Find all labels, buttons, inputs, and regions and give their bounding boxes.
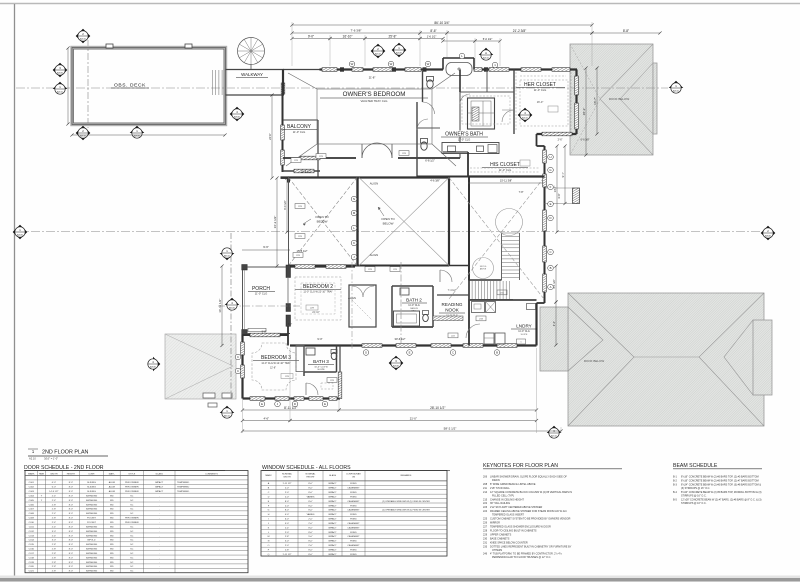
- section marker 4/A3.00 right of deck: [230, 107, 245, 122]
- svg-text:B-1: B-1: [673, 476, 677, 479]
- svg-text:8'-0": 8'-0": [308, 510, 313, 512]
- section marker 1/A4.10 right roof: [669, 81, 684, 94]
- svg-text:G: G: [268, 510, 270, 512]
- svg-text:BATH 2: BATH 2: [406, 298, 422, 303]
- svg-text:2'-4": 2'-4": [285, 527, 290, 529]
- svg-text:STIRRUPS @ 16" O.C.: STIRRUPS @ 16" O.C.: [681, 502, 707, 505]
- svg-text:4'-1 1/2": 4'-1 1/2": [552, 279, 556, 289]
- corridor walls mid: [460, 91, 514, 93]
- tray ceiling: [317, 89, 432, 144]
- void west wall: [288, 178, 290, 267]
- her closet walls: [513, 70, 515, 135]
- svg-text:5'-0": 5'-0": [308, 536, 313, 538]
- svg-text:A4.10: A4.10: [673, 90, 680, 93]
- svg-text:FIXED: FIXED: [350, 496, 357, 498]
- svg-text:2'-8": 2'-8": [52, 504, 57, 506]
- wall tags east: [548, 154, 554, 160]
- svg-text:E: E: [409, 351, 411, 355]
- svg-text:21'-8": 21'-8": [369, 76, 376, 80]
- svg-text:LINEAR SHOWER DRAIN. SLOPE FLO: LINEAR SHOWER DRAIN. SLOPE FLOOR EQUALLY…: [490, 476, 567, 479]
- nook door arc: [440, 270, 452, 282]
- bedroom2 closet: [349, 285, 376, 327]
- lndry hall cabinets: [472, 302, 485, 313]
- svg-text:WD: WD: [110, 571, 114, 573]
- south right vdims: [555, 266, 557, 302]
- svg-text:2'-4": 2'-4": [52, 495, 57, 497]
- section marker 2/A3.00 far right: [761, 226, 776, 241]
- window tags top wall: [349, 61, 355, 67]
- roof below bottom-right: [568, 293, 764, 426]
- svg-text:SLIDING: SLIDING: [87, 491, 96, 493]
- svg-text:2'-4": 2'-4": [52, 522, 57, 524]
- bath3 walls: [303, 346, 305, 377]
- svg-text:11'-0" CLG: 11'-0" CLG: [534, 88, 546, 92]
- washer dryer: [484, 333, 494, 344]
- svg-text:W: W: [427, 62, 430, 66]
- svg-text:IMPACT: IMPACT: [328, 540, 337, 543]
- svg-text:WD: WD: [110, 518, 114, 520]
- svg-text:4'-6": 4'-6": [263, 416, 269, 420]
- svg-text:11'-0" CLG: 11'-0" CLG: [255, 292, 267, 296]
- svg-text:MARK: MARK: [28, 473, 35, 476]
- svg-text:CASEMENT: CASEMENT: [347, 487, 360, 490]
- svg-text:8'-0": 8'-0": [285, 501, 290, 503]
- corridor door arc: [460, 94, 470, 104]
- svg-text:8'-0": 8'-0": [308, 550, 313, 552]
- svg-text:SWINGING: SWINGING: [86, 509, 98, 511]
- svg-text:WD: WD: [110, 562, 114, 564]
- svg-text:REMARKS: REMARKS: [401, 474, 412, 477]
- svg-text:HIS CLOSET: HIS CLOSET: [490, 162, 520, 168]
- svg-text:A6.00: A6.00: [229, 307, 235, 310]
- svg-text:2'-8": 2'-8": [285, 550, 290, 552]
- svg-text:5'-0 1/2": 5'-0 1/2": [483, 37, 493, 41]
- svg-text:SC: SC: [130, 504, 133, 506]
- svg-text:FIXED: FIXED: [350, 554, 357, 556]
- section marker 1/A6.10 porch top: [220, 248, 235, 260]
- svg-text:WD: WD: [110, 566, 114, 568]
- svg-text:ALIGN: ALIGN: [370, 253, 378, 257]
- svg-text:HEIGHT: HEIGHT: [306, 476, 315, 478]
- svg-text:WD: WD: [110, 509, 114, 511]
- svg-text:30'-6 1/2": 30'-6 1/2": [395, 337, 406, 341]
- her closet shelves dashed: [515, 72, 517, 130]
- svg-text:223: 223: [483, 506, 488, 509]
- svg-text:SC: SC: [130, 544, 133, 546]
- svg-text:ALUM: ALUM: [109, 490, 115, 493]
- north wall owner suite: [283, 69, 320, 71]
- stair treads lower: [469, 281, 509, 300]
- svg-text:SWINGING: SWINGING: [86, 549, 98, 551]
- svg-text:F: F: [550, 185, 552, 189]
- svg-text:21'-0": 21'-0": [410, 416, 417, 420]
- wall posts top: [340, 67, 344, 71]
- svg-text:C001: C001: [29, 482, 35, 484]
- svg-text:B: B: [496, 351, 498, 355]
- door schedule table: [25, 471, 248, 573]
- svg-text:A3.00: A3.00: [765, 235, 772, 238]
- east step wall: [536, 134, 538, 146]
- svg-text:2'-0": 2'-0": [285, 532, 290, 534]
- void bottom wall: [289, 265, 450, 267]
- svg-text:228: 228: [483, 530, 488, 533]
- svg-text:CASEMENT: CASEMENT: [347, 544, 360, 547]
- svg-text:IMPACT: IMPACT: [328, 495, 337, 498]
- svg-text:8'-0": 8'-0": [69, 500, 74, 502]
- svg-text:ALUM: ALUM: [109, 481, 115, 484]
- svg-text:2ND FLOOR PLAN: 2ND FLOOR PLAN: [42, 450, 89, 456]
- east wall her closet: [575, 70, 577, 135]
- svg-text:A4.10: A4.10: [483, 57, 489, 60]
- svg-text:8'-0": 8'-0": [69, 491, 74, 493]
- keyed box lndry: [517, 339, 526, 344]
- svg-text:21'-2 3/8": 21'-2 3/8": [513, 29, 526, 33]
- svg-text:2'-8": 2'-8": [52, 557, 57, 559]
- svg-text:CONF.: CONF.: [88, 474, 95, 476]
- svg-text:BIFOLD: BIFOLD: [88, 540, 96, 542]
- svg-text:14'-5 1/2": 14'-5 1/2": [49, 491, 58, 493]
- svg-text:POCKET: POCKET: [87, 518, 97, 520]
- svg-text:ROOF BELOW: ROOF BELOW: [609, 97, 630, 101]
- svg-text:C004: C004: [29, 495, 35, 497]
- svg-text:C: C: [237, 355, 239, 359]
- svg-text:10'-0" CLG W: 10'-0" CLG W: [314, 367, 328, 369]
- svg-text:3'-0": 3'-0": [52, 531, 57, 533]
- svg-text:8'-0": 8'-0": [285, 510, 290, 512]
- porch step: [248, 328, 266, 331]
- svg-text:225: 225: [483, 518, 488, 521]
- svg-text:86'-10 3/4": 86'-10 3/4": [434, 21, 449, 25]
- svg-text:DOTTED LINES REPRESENT BUILT-I: DOTTED LINES REPRESENT BUILT-IN CABINETR…: [490, 545, 572, 548]
- svg-text:COMMENTS: COMMENTS: [205, 474, 218, 476]
- bedroom3 tray: [252, 343, 296, 390]
- svg-text:25'-8": 25'-8": [388, 34, 396, 38]
- svg-text:SWINGING: SWINGING: [86, 557, 98, 559]
- bath3 east wall: [338, 372, 342, 399]
- svg-text:UPPER CABINETS: UPPER CABINETS: [490, 533, 512, 536]
- svg-text:VAULTED TRAY CLG: VAULTED TRAY CLG: [361, 99, 388, 103]
- svg-text:BATH 3: BATH 3: [313, 359, 329, 364]
- svg-text:2'-0": 2'-0": [285, 505, 290, 507]
- window schedule table: [261, 471, 447, 557]
- svg-text:8'-0": 8'-0": [69, 535, 74, 537]
- svg-text:8'-11 1/2": 8'-11 1/2": [284, 406, 297, 410]
- wall tags void west: [351, 196, 357, 202]
- svg-text:1'-11 1/2": 1'-11 1/2": [282, 483, 291, 485]
- svg-text:2'-6": 2'-6": [558, 139, 563, 142]
- svg-text:A: A: [485, 51, 487, 55]
- svg-text:FIXED: FIXED: [350, 532, 357, 534]
- svg-text:2'-4": 2'-4": [52, 526, 57, 528]
- svg-text:FLOOR-TO-CEILING BUILT-IN CABI: FLOOR-TO-CEILING BUILT-IN CABINETS: [490, 530, 537, 533]
- svg-text:SC: SC: [130, 526, 133, 528]
- svg-text:TEMPERED GLASS INSERT: TEMPERED GLASS INSERT: [492, 514, 524, 517]
- svg-text:C018: C018: [29, 557, 35, 559]
- svg-text:C012: C012: [29, 531, 35, 533]
- svg-text:8'-0": 8'-0": [69, 553, 74, 555]
- svg-text:227: 227: [483, 526, 488, 529]
- svg-text:DRAIN: DRAIN: [492, 479, 500, 482]
- svg-text:A4.10: A4.10: [57, 91, 63, 94]
- svg-text:PERPENDICULAR TO FLOOR TRUSSES: PERPENDICULAR TO FLOOR TRUSSES @ 12" O.C…: [492, 556, 551, 559]
- svg-text:IMPACT: IMPACT: [155, 481, 164, 484]
- svg-text:SC: SC: [130, 500, 133, 502]
- his closet bottom wall: [468, 175, 545, 177]
- svg-text:J: J: [268, 523, 269, 525]
- svg-text:NOMINAL: NOMINAL: [306, 472, 317, 475]
- svg-text:8'-0": 8'-0": [69, 544, 74, 546]
- svg-text:A2.10: A2.10: [551, 435, 558, 438]
- svg-text:222: 222: [483, 502, 488, 505]
- svg-text:NOMINAL: NOMINAL: [282, 472, 293, 475]
- svg-text:C019: C019: [29, 562, 35, 564]
- svg-text:233: 233: [483, 545, 488, 548]
- svg-text:8'-0": 8'-0": [308, 527, 313, 529]
- svg-text:WD: WD: [110, 500, 114, 502]
- svg-text:9'-0": 9'-0": [308, 34, 314, 38]
- svg-text:4'-0": 4'-0": [285, 514, 290, 516]
- east wall stair hall: [544, 146, 546, 303]
- svg-text:8'-0": 8'-0": [308, 532, 313, 534]
- svg-text:2'-0": 2'-0": [308, 523, 313, 525]
- walkway: [226, 69, 285, 71]
- svg-text:58'-2 1/2": 58'-2 1/2": [444, 427, 457, 431]
- bath bottom wall: [417, 176, 468, 178]
- section marker 3/A2.10 roof bottom: [547, 426, 562, 438]
- svg-text:SC: SC: [130, 495, 133, 497]
- svg-text:PORCH: PORCH: [252, 286, 270, 292]
- her closet south wall: [537, 133, 577, 135]
- svg-text:C: C: [237, 369, 239, 373]
- svg-text:FIXED: FIXED: [350, 550, 357, 552]
- svg-text:FIXED: FIXED: [350, 519, 357, 521]
- porch posts: [242, 265, 248, 271]
- svg-text:A2.10: A2.10: [375, 53, 381, 56]
- svg-text:3/16" = 1'-0": 3/16" = 1'-0": [44, 457, 58, 461]
- page top edge: [0, 3, 800, 5]
- svg-text:PER OWNER: PER OWNER: [125, 491, 139, 493]
- svg-text:WD: WD: [110, 540, 114, 542]
- svg-text:28'-10 1/2": 28'-10 1/2": [430, 406, 445, 410]
- svg-text:IMPACT: IMPACT: [155, 490, 164, 493]
- svg-text:BELOW: BELOW: [317, 220, 328, 224]
- svg-text:2'-8": 2'-8": [52, 562, 57, 564]
- section marker 4/A4.10 top2: [479, 48, 494, 60]
- svg-text:K: K: [353, 241, 355, 245]
- svg-text:READING: READING: [442, 302, 463, 307]
- lndry east jog: [537, 302, 545, 304]
- svg-text:9'-0 1/2": 9'-0 1/2": [283, 200, 287, 210]
- svg-text:E: E: [261, 402, 263, 406]
- svg-text:9'-7": 9'-7": [561, 172, 565, 177]
- svg-text:POCKET: POCKET: [87, 522, 97, 524]
- svg-text:4'-6 3/8": 4'-6 3/8": [430, 179, 440, 183]
- porch vdim: [221, 266, 223, 346]
- svg-text:6'-8 1/2": 6'-8 1/2": [425, 159, 435, 163]
- section marker 4/A4.10 her closet: [518, 108, 533, 123]
- svg-text:SC: SC: [130, 531, 133, 533]
- svg-text:HEIGHT: HEIGHT: [67, 474, 76, 476]
- section marker 2/A2.10 top: [371, 44, 386, 59]
- svg-text:SWINGING: SWINGING: [86, 566, 98, 568]
- svg-text:TEMPERED: TEMPERED: [177, 487, 190, 489]
- svg-text:A4.10: A4.10: [80, 38, 86, 41]
- svg-text:C011: C011: [29, 526, 35, 528]
- svg-text:6'-0": 6'-0": [52, 487, 57, 489]
- svg-text:SWINGING: SWINGING: [86, 553, 98, 555]
- svg-text:7'-8": 7'-8": [519, 191, 524, 194]
- porch centerline: [218, 305, 300, 307]
- svg-text:22'-10": 22'-10": [312, 311, 320, 314]
- svg-text:211: 211: [483, 487, 488, 490]
- svg-text:IMPACT: IMPACT: [328, 544, 337, 547]
- svg-text:8'-0": 8'-0": [308, 501, 313, 503]
- owner bedroom south wall: [283, 157, 356, 159]
- svg-text:2'-0": 2'-0": [308, 519, 313, 521]
- svg-text:A6.10: A6.10: [224, 255, 230, 258]
- svg-text:C009: C009: [29, 518, 35, 520]
- svg-text:B-2: B-2: [673, 479, 677, 482]
- hall keyed boxes: [476, 316, 486, 321]
- svg-text:1'-11 1/2": 1'-11 1/2": [282, 554, 291, 556]
- bath tub: [446, 63, 472, 76]
- svg-text:2'-0": 2'-0": [285, 492, 290, 494]
- svg-text:11'-0" CLG W 12'-10" TRAY: 11'-0" CLG W 12'-10" TRAY: [261, 362, 291, 365]
- svg-text:C017: C017: [29, 553, 35, 555]
- svg-text:8'-0": 8'-0": [69, 526, 74, 528]
- her closet door arc: [502, 110, 514, 122]
- svg-text:OTHERS: OTHERS: [492, 549, 503, 552]
- svg-text:C006: C006: [29, 504, 35, 506]
- svg-text:FIXED: FIXED: [350, 514, 357, 516]
- svg-text:FIXED: FIXED: [350, 483, 357, 485]
- svg-text:7'-4 1/2": 7'-4 1/2": [448, 289, 457, 292]
- svg-text:9'-0": 9'-0": [317, 337, 322, 341]
- svg-text:8"x16" CONCRETE BEAM W (2) #5: 8"x16" CONCRETE BEAM W (2) #5 BARS TOP, …: [681, 479, 759, 482]
- svg-text:8'-0": 8'-0": [69, 495, 74, 497]
- svg-text:PER OWNER: PER OWNER: [125, 487, 139, 489]
- svg-text:9'-8": 9'-8": [262, 331, 267, 334]
- svg-text:IMPACT: IMPACT: [328, 500, 337, 503]
- section marker 3/A4.00 south wall: [389, 356, 404, 371]
- svg-text:2'-0": 2'-0": [285, 545, 290, 547]
- porch bottom edge: [247, 333, 290, 335]
- svg-text:C008: C008: [29, 513, 35, 515]
- svg-text:SC: SC: [130, 535, 133, 537]
- svg-text:WD: WD: [110, 522, 114, 524]
- keyed note boxes scattered: [291, 158, 301, 163]
- svg-text:C014: C014: [29, 540, 35, 542]
- svg-text:N: N: [353, 197, 355, 201]
- svg-text:C007: C007: [29, 509, 35, 511]
- svg-text:8'-0": 8'-0": [69, 549, 74, 551]
- svg-text:12'-8": 12'-8": [270, 367, 276, 370]
- svg-text:C021: C021: [29, 571, 35, 573]
- svg-text:8'-0": 8'-0": [308, 488, 313, 490]
- svg-text:11'-0" CLG: 11'-0" CLG: [499, 168, 511, 172]
- svg-text:6'-6 3/8": 6'-6 3/8": [581, 139, 590, 142]
- svg-text:8'-0": 8'-0": [69, 562, 74, 564]
- svg-text:246: 246: [483, 553, 488, 556]
- svg-text:8" WIDE GRIND BEAM & LINTEL AB: 8" WIDE GRIND BEAM & LINTEL ABOVE: [490, 483, 536, 486]
- void top wall: [281, 176, 360, 178]
- svg-text:SC: SC: [130, 571, 133, 573]
- svg-text:SWINGING: SWINGING: [86, 495, 98, 497]
- svg-text:36" TALL RAILING: 36" TALL RAILING: [490, 502, 510, 505]
- svg-text:11'-0" CLG: 11'-0" CLG: [408, 304, 420, 307]
- svg-text:CHANGE IN CEILING HEIGHT: CHANGE IN CEILING HEIGHT: [490, 498, 524, 501]
- owners bath counter: [442, 143, 499, 154]
- svg-text:(2) OPERABLE WINDOWS W (1) FIX: (2) OPERABLE WINDOWS W (1) FIXED IN CENT…: [382, 509, 430, 512]
- svg-text:6'-0": 6'-0": [285, 519, 290, 521]
- owners bath walls: [417, 127, 440, 129]
- svg-text:MARK: MARK: [265, 474, 272, 477]
- wall tags south wall: [363, 350, 369, 356]
- top dims level3: [292, 38, 330, 40]
- bath2 fixtures: [394, 311, 420, 326]
- svg-text:IMPACT: IMPACT: [328, 535, 337, 538]
- svg-text:SWINGING: SWINGING: [86, 504, 98, 506]
- svg-text:ALIGN: ALIGN: [370, 182, 378, 186]
- svg-text:SLOPE: SLOPE: [317, 369, 325, 371]
- left deck dims: [67, 48, 69, 124]
- svg-text:SWINGING: SWINGING: [86, 500, 98, 502]
- svg-text:2'-8": 2'-8": [52, 566, 57, 568]
- bedroom3 south wall: [243, 397, 341, 399]
- svg-text:SWINGING: SWINGING: [86, 535, 98, 537]
- svg-text:B: B: [550, 266, 552, 270]
- svg-text:2'-8": 2'-8": [52, 571, 57, 573]
- svg-text:SWINGING: SWINGING: [86, 562, 98, 564]
- wc door arcs: [423, 102, 435, 114]
- owner bedroom double door: [362, 143, 377, 158]
- svg-text:14'-11 1/2": 14'-11 1/2": [218, 299, 222, 313]
- svg-text:8'-0": 8'-0": [69, 487, 74, 489]
- svg-text:WIDTH: WIDTH: [50, 474, 58, 476]
- svg-text:ALIGN: ALIGN: [348, 296, 356, 300]
- svg-text:WD: WD: [110, 553, 114, 555]
- void divider wall: [356, 178, 358, 267]
- svg-text:BEDROOM 3: BEDROOM 3: [261, 355, 291, 361]
- svg-text:C: C: [452, 351, 454, 355]
- porch roof vents: [203, 393, 215, 398]
- svg-text:8'-0": 8'-0": [69, 518, 74, 520]
- svg-text:8'-0": 8'-0": [69, 482, 74, 484]
- svg-text:BEDROOM 2: BEDROOM 2: [303, 284, 333, 290]
- svg-text:OBS. DECK: OBS. DECK: [114, 83, 146, 89]
- svg-text:BELOW: BELOW: [383, 222, 394, 226]
- svg-text:TEMPERED: TEMPERED: [177, 482, 190, 484]
- section marker 4/A6.00 porch: [225, 298, 240, 310]
- left vdims void: [276, 178, 278, 266]
- svg-text:18'-3": 18'-3": [582, 108, 586, 116]
- svg-text:2'-8": 2'-8": [52, 553, 57, 555]
- svg-text:8'-0": 8'-0": [69, 509, 74, 511]
- top dims level2: [292, 32, 420, 34]
- owners bath label: [440, 131, 489, 137]
- svg-text:BEAM SCHEDULE: BEAM SCHEDULE: [673, 463, 718, 469]
- svg-text:C: C: [549, 250, 551, 254]
- svg-text:2'-8": 2'-8": [52, 549, 57, 551]
- svg-text:5'-0": 5'-0": [285, 523, 290, 525]
- svg-text:IMPACT: IMPACT: [328, 526, 337, 529]
- svg-text:KNEE SPACE BELOW COUNTER: KNEE SPACE BELOW COUNTER: [490, 541, 528, 544]
- bedroom3 closet door arc: [306, 383, 318, 395]
- svg-text:8'-0": 8'-0": [308, 541, 313, 543]
- svg-text:WALKWAY: WALKWAY: [241, 72, 263, 77]
- svg-text:8'-6": 8'-6": [430, 29, 436, 33]
- owner bedroom west wall: [282, 70, 284, 96]
